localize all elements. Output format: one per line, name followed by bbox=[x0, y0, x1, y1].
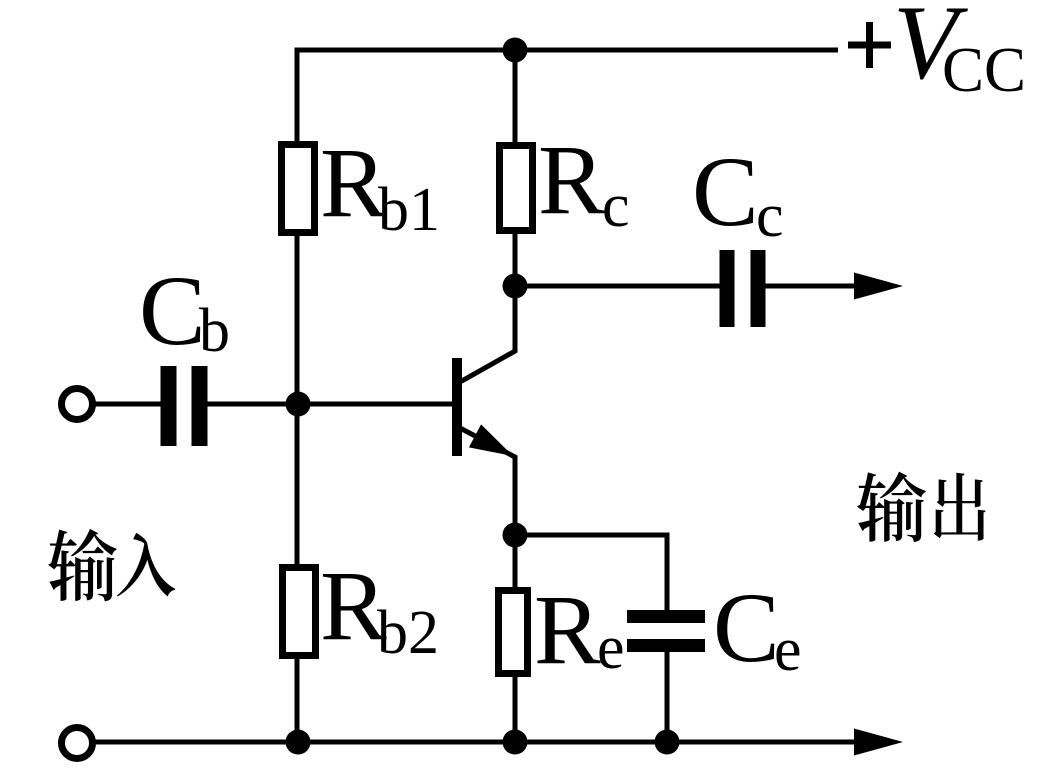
ground rail arrowhead bbox=[854, 729, 903, 756]
transistor Q1 base bar bbox=[452, 358, 462, 456]
transistor Q1 emitter lead bbox=[460, 428, 515, 535]
label output (Chinese) bbox=[857, 472, 926, 542]
resistor Re bbox=[499, 591, 528, 674]
wire: Cb to transistor base bbox=[207, 402, 452, 407]
wire: Cc to output arrow bbox=[765, 284, 866, 289]
svg-text:b: b bbox=[199, 297, 230, 365]
wire: Vcc rail down to Rc bbox=[513, 50, 518, 145]
wire: Re bottom to ground rail bbox=[513, 674, 518, 742]
wire: input terminal to Cb bbox=[93, 402, 161, 407]
node: Vcc junction dot bbox=[503, 38, 528, 63]
wire: +Vcc top rail bbox=[297, 50, 838, 141]
transistor Q1 emitter arrowhead bbox=[469, 424, 513, 456]
ground terminal circle bbox=[62, 728, 93, 759]
wire: Rc bottom to collector node bbox=[513, 230, 518, 286]
node: collector junction dot bbox=[503, 274, 528, 299]
label input (Chinese) bbox=[48, 529, 116, 601]
svg-text:C: C bbox=[139, 255, 206, 366]
output arrowhead bbox=[854, 273, 903, 300]
wire: emitter node down to Re bbox=[513, 535, 518, 590]
svg-text:b1: b1 bbox=[378, 176, 440, 244]
svg-text:R: R bbox=[534, 574, 601, 685]
resistor Rb1 bbox=[282, 145, 315, 233]
resistor Rc bbox=[500, 146, 533, 231]
capacitor Ce bbox=[627, 610, 705, 623]
input terminal circle bbox=[62, 389, 93, 420]
svg-text:b2: b2 bbox=[377, 599, 439, 667]
wire: Ce bottom to ground rail bbox=[665, 650, 670, 742]
capacitor Cc bbox=[720, 250, 735, 327]
transistor Q1 collector lead bbox=[460, 286, 515, 382]
node: Re ground junction dot bbox=[503, 730, 528, 755]
node: base junction dot bbox=[286, 392, 311, 417]
wire: Rb1 bottom to base node bbox=[295, 236, 300, 404]
wire: base node down to Rb2 bbox=[295, 404, 300, 568]
node: Rb2 ground junction dot bbox=[286, 730, 311, 755]
svg-text:R: R bbox=[320, 127, 387, 238]
resistor Rb2 bbox=[283, 568, 316, 656]
node: emitter junction dot bbox=[503, 523, 528, 548]
svg-text:R: R bbox=[538, 124, 605, 235]
label +Vcc plus sign bbox=[848, 22, 891, 68]
node: Ce ground junction dot bbox=[655, 730, 680, 755]
svg-text:e: e bbox=[774, 616, 802, 684]
capacitor Cb bbox=[161, 366, 177, 446]
svg-text:C: C bbox=[713, 572, 780, 683]
wire: bottom ground rail bbox=[92, 740, 866, 745]
svg-text:c: c bbox=[602, 172, 630, 240]
svg-text:c: c bbox=[756, 182, 784, 250]
wire: emitter node over to Ce branch bbox=[515, 535, 667, 612]
svg-text:CC: CC bbox=[942, 35, 1026, 105]
svg-text:e: e bbox=[597, 614, 625, 682]
wire: Rb2 bottom to ground rail bbox=[295, 655, 300, 742]
svg-text:C: C bbox=[692, 136, 759, 247]
wire: collector node to Cc bbox=[515, 284, 720, 289]
